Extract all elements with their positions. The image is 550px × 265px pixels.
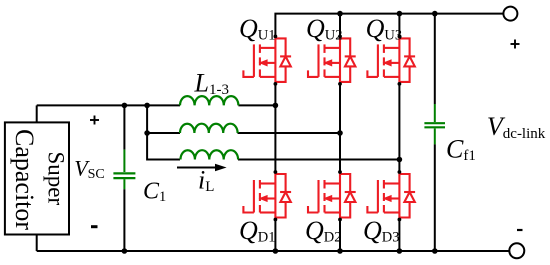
minus sign at dc link xyxy=(517,229,523,231)
svg-text:Capacitor: Capacitor xyxy=(10,129,39,230)
wire: row3 inductor to leg3 xyxy=(238,159,399,161)
transistor QU3 xyxy=(367,36,415,84)
wire: row1 from inductor to leg1 xyxy=(238,104,275,106)
transistor QU1 xyxy=(243,36,291,84)
transistor QD2 xyxy=(308,172,356,220)
wire: C1 branch vertical xyxy=(123,105,125,251)
plus sign at dc link xyxy=(511,40,520,49)
transistor QD3 xyxy=(367,172,415,220)
wire: row2 feeder xyxy=(147,132,180,134)
transistor QD1 xyxy=(243,172,291,220)
capacitor Cf1 plates xyxy=(424,123,445,127)
current arrow iL xyxy=(177,164,227,172)
wire: supercap bottom lead xyxy=(36,235,38,252)
transistor QU2 xyxy=(308,36,356,84)
wire: bottom rail xyxy=(37,250,510,252)
capacitor C1 plates xyxy=(113,173,135,178)
terminal circle bottom xyxy=(509,243,524,258)
leg 1 vertical (phase A) xyxy=(274,84,276,251)
wire: row2 inductor to leg2 xyxy=(238,132,341,134)
wire: Cf1 branch xyxy=(434,14,436,251)
supercapacitor label "Super Capacitor" xyxy=(10,129,69,230)
wire: top rail xyxy=(275,14,503,37)
inductor L1 xyxy=(180,96,238,105)
minus sign near supercap xyxy=(91,225,98,228)
inductor L3 xyxy=(181,150,239,159)
transistor pin dots xyxy=(274,35,402,222)
leg 2 vertical (phase B) xyxy=(339,14,341,251)
terminal circle top xyxy=(503,7,517,21)
wire: positive mid rail (row 1) xyxy=(37,104,180,106)
plus sign near supercap xyxy=(90,116,99,125)
svg-text:Super: Super xyxy=(44,152,69,206)
wire: supercap top lead xyxy=(36,105,38,122)
supercapacitor box xyxy=(5,122,69,234)
wire: second feeder vertical xyxy=(147,105,180,159)
inductor L2 xyxy=(180,124,238,133)
leg 3 vertical (phase C) xyxy=(398,14,400,251)
